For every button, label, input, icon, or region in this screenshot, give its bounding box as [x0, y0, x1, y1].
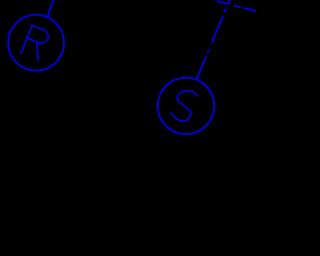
point symbol circle S — [158, 78, 214, 134]
point symbol circle R — [8, 15, 64, 71]
wire: dash-dot centerline L2 from top edge to right edge — [213, 0, 257, 11]
wire: solid leader line from circle R to top edge — [48, 0, 54, 16]
label S — [171, 91, 197, 122]
wire: dash-dot centerline L1 from top edge to circle S — [196, 0, 229, 80]
label R — [21, 25, 50, 61]
